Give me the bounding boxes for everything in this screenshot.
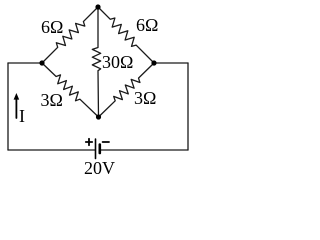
- wire bottom-left to battery: [8, 149, 95, 151]
- label 3ohm bottom-right: [134, 89, 156, 107]
- node B junction dot: [96, 114, 101, 119]
- node R junction dot: [151, 60, 156, 65]
- wire left: node L to left rail: [8, 62, 42, 64]
- current arrow I: [15, 98, 17, 118]
- resistor R5 3ohm bottom-right: [99, 63, 155, 117]
- resistor R4 3ohm bottom-left: [42, 63, 99, 117]
- label I current: [19, 107, 25, 125]
- wire right rail up: [187, 63, 189, 150]
- label 6ohm top-right: [136, 16, 158, 34]
- label 30ohm middle: [102, 53, 133, 71]
- label 6ohm top-left: [41, 18, 63, 36]
- wire left rail down: [7, 63, 9, 150]
- resistor R2 6ohm top-right: [98, 7, 154, 63]
- resistor R3 30ohm middle: [92, 7, 100, 117]
- battery plus sign: [86, 139, 92, 145]
- label 20V battery value: [84, 159, 115, 177]
- label 3ohm bottom-left: [41, 91, 63, 109]
- wire battery to bottom-right corner: [100, 149, 188, 151]
- node T junction dot: [95, 4, 100, 9]
- wire right rail to node R: [154, 62, 188, 64]
- battery minus sign: [103, 141, 109, 143]
- battery V1 long positive plate: [95, 139, 97, 159]
- resistor R1 6ohm top-left: [42, 7, 98, 63]
- node L junction dot: [39, 60, 44, 65]
- battery V1 short negative plate: [99, 145, 102, 154]
